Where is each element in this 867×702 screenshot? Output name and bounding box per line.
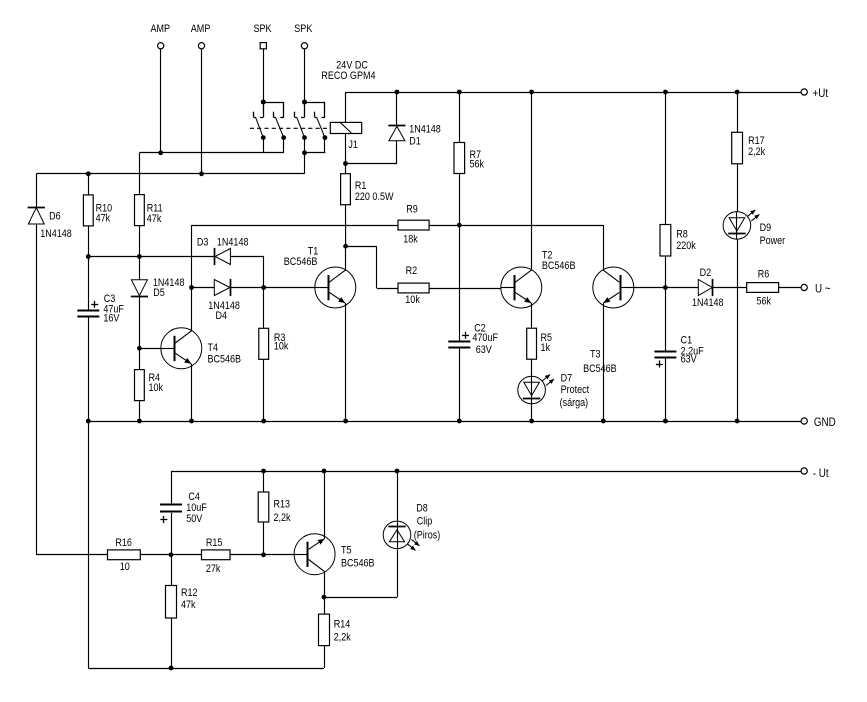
wire R6 to U~ terminal xyxy=(779,287,801,289)
wire T1 emitter down xyxy=(345,303,347,421)
transistor T5 BC546B xyxy=(294,534,375,575)
svg-text:R8: R8 xyxy=(676,229,688,241)
wire R2 to T2 base xyxy=(429,288,501,290)
svg-text:1N4148: 1N4148 xyxy=(217,237,249,249)
wire R5 to D7 xyxy=(531,359,533,376)
svg-text:RECO GPM4: RECO GPM4 xyxy=(321,70,375,82)
wire D9 to GND xyxy=(737,239,739,421)
svg-text:BC546B: BC546B xyxy=(341,558,375,570)
svg-text:Clip: Clip xyxy=(417,516,433,528)
diode D4 1N4148 xyxy=(208,279,240,323)
svg-text:1N4148: 1N4148 xyxy=(409,124,441,136)
wire J1/D1 bottom link xyxy=(346,141,397,164)
wire R10 leads xyxy=(88,174,90,257)
LED D8 Clip xyxy=(383,503,440,551)
svg-text:R12: R12 xyxy=(181,587,198,599)
node GND C3 xyxy=(86,419,91,424)
resistor R2 10k xyxy=(398,265,429,306)
wire R17 leads xyxy=(737,92,739,212)
svg-text:2,2k: 2,2k xyxy=(274,512,292,524)
node D4/R3/T1 junction xyxy=(261,285,266,290)
svg-text:47k: 47k xyxy=(147,213,162,225)
terminal U~ xyxy=(801,283,830,296)
wire T5 emitter to -Ut xyxy=(324,471,326,539)
wire R16 to node xyxy=(140,554,201,556)
wire SPK2 down xyxy=(304,49,306,102)
node R13/T5 base junction xyxy=(261,552,266,557)
terminal AMP (right) xyxy=(191,23,211,48)
node T5 collector junction xyxy=(322,595,327,600)
wire J1 coil top to +Ut xyxy=(345,92,347,122)
resistor R4 10k xyxy=(135,370,164,401)
resistor R13 2,2k xyxy=(258,492,291,524)
svg-text:220 0.5W: 220 0.5W xyxy=(355,191,394,203)
terminal +Ut xyxy=(801,87,828,100)
wire D3 cathode-side to R1 net... right segment xyxy=(230,257,263,288)
svg-text:SPK: SPK xyxy=(254,23,272,35)
capacitor C4 10uF 50V xyxy=(160,491,207,525)
wire T4 collector up xyxy=(191,225,193,331)
node T1 collector junction xyxy=(343,244,348,249)
svg-text:16V: 16V xyxy=(103,313,119,325)
svg-text:47k: 47k xyxy=(96,213,111,225)
wire node bias bus xyxy=(88,256,214,258)
wire C1 leads xyxy=(665,288,667,422)
resistor R5 1k xyxy=(527,328,553,359)
svg-text:Power: Power xyxy=(760,235,786,247)
node T3 base junction xyxy=(663,285,668,290)
svg-text:D3: D3 xyxy=(197,237,209,249)
svg-text:18k: 18k xyxy=(403,234,418,246)
svg-text:D1: D1 xyxy=(409,136,421,148)
relay coil J1 xyxy=(321,60,375,152)
svg-text:D4: D4 xyxy=(216,310,228,322)
svg-text:D8: D8 xyxy=(416,503,428,515)
svg-text:63V: 63V xyxy=(476,344,492,356)
svg-text:R16: R16 xyxy=(115,537,132,549)
svg-text:1N4148: 1N4148 xyxy=(692,297,724,309)
terminal SPK (right) xyxy=(294,23,312,48)
resistor R11 47k xyxy=(135,195,164,226)
svg-text:D2: D2 xyxy=(700,267,712,279)
wire AMP2 down xyxy=(201,49,203,174)
wire R12 leads xyxy=(171,555,173,668)
wire D8 leads xyxy=(397,471,399,597)
resistor R16 10 xyxy=(108,537,141,573)
terminal -Ut xyxy=(801,467,829,480)
svg-text:J1: J1 xyxy=(348,139,358,151)
wire D2 anode lead xyxy=(665,287,698,289)
svg-text:SPK: SPK xyxy=(294,23,312,35)
wire R14 leads xyxy=(324,597,326,668)
svg-text:BC546B: BC546B xyxy=(208,354,242,366)
node GND C2 xyxy=(457,419,462,424)
svg-text:56k: 56k xyxy=(470,159,485,171)
svg-text:Protect: Protect xyxy=(561,384,590,396)
transistor T3 BC546B xyxy=(583,267,634,375)
terminal GND xyxy=(801,416,836,429)
node GND D9 xyxy=(735,419,740,424)
wire C3/GND down to bottom bus xyxy=(88,421,90,668)
transistor T1 BC546B xyxy=(284,246,356,308)
svg-text:2,2k: 2,2k xyxy=(748,146,766,158)
wire T3 emitter down xyxy=(603,303,605,421)
terminal SPK (left) xyxy=(254,23,272,48)
wire bottom return bus xyxy=(88,668,324,670)
node -Ut R13 xyxy=(261,469,266,474)
node bias bus left junction xyxy=(86,254,91,259)
wire T5 collector down xyxy=(324,572,326,597)
resistor R17 2,2k xyxy=(732,132,766,164)
wire R3 leads xyxy=(263,288,265,422)
svg-text:BC546B: BC546B xyxy=(583,363,617,375)
diode D6 1N4148 xyxy=(28,208,72,241)
svg-text:(sárga): (sárga) xyxy=(560,397,589,409)
node T4 base junction xyxy=(137,346,142,351)
svg-text:220k: 220k xyxy=(676,240,696,252)
svg-text:D7: D7 xyxy=(561,373,573,385)
resistor R7 56k xyxy=(454,143,485,174)
svg-text:GND: GND xyxy=(814,416,836,429)
wire net AMP1 (upper bus) xyxy=(139,153,283,195)
wire R11 lower lead xyxy=(139,225,141,257)
wire C2 leads xyxy=(459,225,461,421)
resistor R9 18k xyxy=(398,204,429,246)
svg-text:BC546B: BC546B xyxy=(542,260,576,272)
wire R9 bus (T4 collector to T3 collector) xyxy=(192,225,604,270)
wire T4 emitter down xyxy=(191,364,193,421)
wire net AMP2 stub xyxy=(305,153,326,174)
LED D9 Power xyxy=(723,210,786,247)
svg-text:10k: 10k xyxy=(274,341,289,353)
svg-text:27k: 27k xyxy=(206,563,221,575)
relay actuation dashed link xyxy=(250,127,330,129)
wire R4 leads xyxy=(139,348,141,421)
node SPK1 junction xyxy=(261,100,266,105)
svg-text:63V: 63V xyxy=(681,354,697,366)
node J1/D1/R1 junction xyxy=(343,161,348,166)
capacitor C3 47uF 16V xyxy=(77,293,124,324)
wire SPK1 down xyxy=(263,49,265,102)
node C4/R12/R15 junction xyxy=(169,552,174,557)
node GND C1 xyxy=(663,419,668,424)
node -Ut D8 xyxy=(395,469,400,474)
svg-text:10k: 10k xyxy=(149,382,164,394)
node R17 +Ut junction xyxy=(735,90,740,95)
wire D1 cathode to +Ut xyxy=(396,92,398,126)
wire GND rail xyxy=(88,421,801,423)
svg-text:D6: D6 xyxy=(49,211,61,223)
svg-text:56k: 56k xyxy=(757,296,772,308)
wire -Ut rail xyxy=(171,471,801,473)
resistor R8 220k xyxy=(660,225,697,257)
svg-text:BC546B: BC546B xyxy=(284,256,318,268)
wire D6 top lead xyxy=(36,174,38,207)
wire D7 to GND xyxy=(531,404,533,421)
resistor R1 220 0.5W xyxy=(341,174,394,205)
node GND D7 xyxy=(529,419,534,424)
svg-text:+Ut: +Ut xyxy=(813,87,829,100)
node T2 collector +Ut junction xyxy=(529,90,534,95)
svg-text:D9: D9 xyxy=(760,222,772,234)
terminal AMP (left) xyxy=(151,23,171,48)
svg-text:(Piros): (Piros) xyxy=(414,530,441,542)
resistor R12 47k xyxy=(166,586,198,619)
svg-text:1N4148: 1N4148 xyxy=(40,228,72,240)
svg-text:2,2k: 2,2k xyxy=(334,632,352,644)
capacitor C1 2,2uF 63V xyxy=(654,335,703,368)
node R8 +Ut junction xyxy=(663,90,668,95)
node -Ut T5e xyxy=(322,469,327,474)
wire D6 anode to R16 corner xyxy=(36,224,107,555)
svg-text:1k: 1k xyxy=(541,342,551,354)
node D5/R11 junction xyxy=(137,254,142,259)
wire R1 leads xyxy=(345,164,347,247)
wire T1 collector dogleg to R2 xyxy=(346,246,399,288)
svg-text:10k: 10k xyxy=(405,294,420,306)
wire T2 collector to +Ut xyxy=(531,92,533,270)
svg-text:AMP: AMP xyxy=(151,23,171,35)
diode D3 1N4148 xyxy=(197,237,249,265)
node R7 +Ut junction xyxy=(457,90,462,95)
relay contact set 1 (SPK left) xyxy=(254,100,287,153)
wire D5 leads xyxy=(139,257,141,349)
LED D7 Protect xyxy=(518,373,590,409)
node bottom bus R12 junction xyxy=(169,666,174,671)
wire T3 base lead xyxy=(634,287,666,289)
node GND T3e xyxy=(601,419,606,424)
wire +Ut rail xyxy=(346,92,801,94)
node D1 +Ut junction xyxy=(395,90,400,95)
node AMP1 junction xyxy=(158,150,163,155)
wire R7 leads xyxy=(459,92,461,225)
relay contact set 2 (SPK right) xyxy=(295,100,328,153)
wire T5 collector to D8 bottom xyxy=(324,597,397,599)
node D4/T4 junction xyxy=(189,285,194,290)
svg-text:10: 10 xyxy=(120,561,130,573)
node AMP2 junction xyxy=(199,171,204,176)
resistor R3 10k xyxy=(259,328,290,359)
svg-text:50V: 50V xyxy=(186,513,202,525)
node contact2 bottom junction xyxy=(302,150,307,155)
wire R8 leads xyxy=(665,92,667,288)
svg-text:470uF: 470uF xyxy=(472,332,498,344)
capacitor C2 470uF 63V xyxy=(448,323,498,357)
wire D4 leads xyxy=(192,287,264,289)
svg-text:R6: R6 xyxy=(758,269,770,281)
wire T1 base lead xyxy=(264,287,315,289)
node GND T1e xyxy=(343,419,348,424)
wire C3 leads xyxy=(88,257,90,422)
svg-text:R15: R15 xyxy=(206,537,223,549)
svg-text:T5: T5 xyxy=(341,545,352,557)
wire net AMP2 (lower bus) xyxy=(36,173,304,175)
svg-text:T4: T4 xyxy=(208,342,219,354)
resistor R15 27k xyxy=(202,537,231,575)
wire C4 leads xyxy=(171,471,173,555)
wire R13 leads xyxy=(263,471,265,555)
diode D1 1N4148 xyxy=(388,124,441,148)
resistor R10 47k xyxy=(83,195,112,226)
resistor R6 56k xyxy=(747,269,779,308)
node GND R4 xyxy=(137,419,142,424)
wire AMP1 down xyxy=(160,49,162,153)
svg-text:47k: 47k xyxy=(181,599,196,611)
svg-text:- Ut: - Ut xyxy=(813,467,829,480)
wire R15 to T5 base xyxy=(230,554,294,556)
svg-text:R13: R13 xyxy=(274,499,291,511)
svg-text:U ~: U ~ xyxy=(815,283,831,296)
svg-text:R14: R14 xyxy=(334,619,351,631)
node R9/R7 junction xyxy=(457,223,462,228)
svg-text:R2: R2 xyxy=(406,265,418,277)
transistor T2 BC546B xyxy=(501,250,576,308)
node GND R3 xyxy=(261,419,266,424)
resistor R14 2,2k xyxy=(319,614,352,646)
svg-text:T3: T3 xyxy=(590,349,601,361)
wire D2 cathode to R6 xyxy=(713,287,747,289)
wire T4 base lead xyxy=(139,348,160,350)
node GND T4e xyxy=(189,419,194,424)
diode D5 1N4148 xyxy=(131,277,185,299)
diode D2 1N4148 xyxy=(692,267,724,309)
node R10 top junction xyxy=(86,171,91,176)
wire T2 emitter to R5 xyxy=(531,303,533,328)
svg-text:D5: D5 xyxy=(153,287,165,299)
node SPK2 junction xyxy=(302,100,307,105)
svg-text:R9: R9 xyxy=(406,204,418,216)
svg-text:AMP: AMP xyxy=(191,23,211,35)
wire J1 coil bottom xyxy=(345,134,347,164)
transistor T4 BC546B xyxy=(161,328,242,369)
